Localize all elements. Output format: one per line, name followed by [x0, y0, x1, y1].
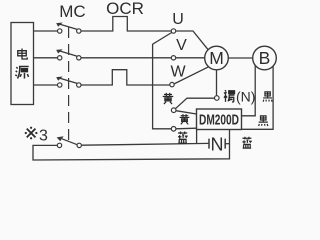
svg-text:(N): (N): [236, 89, 255, 105]
svg-text:U: U: [172, 11, 184, 28]
svg-text:DM200D: DM200D: [199, 112, 239, 128]
svg-text:3: 3: [39, 128, 48, 145]
svg-text:N: N: [211, 135, 224, 155]
svg-text:W: W: [170, 64, 186, 81]
svg-text:M: M: [209, 48, 224, 68]
svg-text:OCR: OCR: [106, 0, 144, 18]
svg-text:V: V: [176, 37, 187, 54]
svg-text:B: B: [259, 48, 271, 68]
svg-text:MC: MC: [59, 2, 85, 21]
